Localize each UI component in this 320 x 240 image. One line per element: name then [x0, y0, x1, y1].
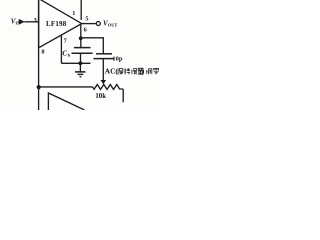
- ground stem: [79, 63, 81, 71]
- hanzi 置: [138, 68, 143, 74]
- svg-text:6: 6: [84, 27, 87, 34]
- wire: input Vin to pin 3: [24, 21, 38, 23]
- svg-text:5: 5: [85, 15, 88, 22]
- wiper arrowhead: [101, 80, 107, 84]
- svg-text:LF198: LF198: [46, 20, 67, 28]
- svg-text:AC(: AC(: [105, 67, 119, 76]
- svg-text:IN: IN: [15, 21, 21, 26]
- op-amp U2 (partial, bottom): [48, 93, 84, 110]
- output terminal circle: [96, 22, 100, 26]
- svg-text:10k: 10k: [95, 93, 106, 100]
- node: junction left rail / pot: [37, 85, 41, 89]
- svg-text:10p: 10p: [112, 55, 123, 62]
- pin 1 lead to V+ (top): [80, 0, 82, 20]
- wire: Ch to ground rail: [80, 53, 82, 63]
- op-amp U1 LF198 triangle: [39, 0, 82, 48]
- svg-text:OUT: OUT: [108, 22, 118, 27]
- wire: branch pin6 to 10p: [81, 38, 104, 54]
- hanzi 持: [124, 68, 130, 74]
- capacitor Ch bottom plate: [72, 52, 93, 54]
- node: junction Ch / ground rail: [79, 61, 83, 65]
- resistor R1 10k zigzag: [93, 85, 124, 90]
- svg-text:8: 8: [41, 49, 44, 56]
- wire: left vertical rail (pin3/pin8 column): [38, 0, 40, 110]
- node: junction pin6 / 10p branch: [79, 36, 83, 40]
- wire: 10p down to wiper arrow: [102, 59, 104, 81]
- hanzi 设: [131, 69, 137, 75]
- input arrowhead Vin: [19, 19, 25, 25]
- wire: bottom ground rail: [61, 62, 90, 64]
- svg-text:3: 3: [34, 17, 37, 24]
- hanzi 零: [153, 68, 159, 74]
- wire: pin 7 lead: [60, 35, 62, 63]
- svg-text:7: 7: [64, 38, 67, 45]
- capacitor 10p bottom plate: [94, 58, 115, 60]
- wire: output pin 5: [82, 23, 97, 25]
- wire: rail to pot: [39, 86, 93, 88]
- ground symbol bars: [75, 72, 86, 77]
- hanzi 保: [118, 68, 123, 74]
- wire: pot right lead down: [122, 89, 124, 102]
- capacitor 10p top plate: [96, 53, 112, 55]
- wire: pin 6 column down to hold cap: [80, 25, 82, 48]
- hanzi 调: [146, 69, 152, 75]
- label AC zero-adjust annotation: [105, 67, 159, 76]
- svg-text:1: 1: [72, 10, 75, 17]
- capacitor Ch top plate: [74, 47, 91, 49]
